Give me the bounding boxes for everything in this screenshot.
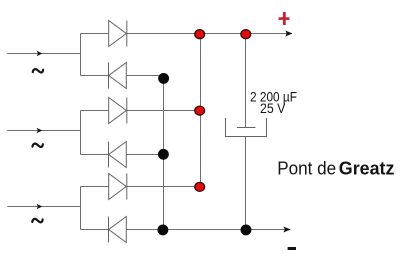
node D2 on negative bus (black) xyxy=(158,73,169,84)
wire positive bus vertical xyxy=(200,34,202,187)
wire phase 1 to diode D2 xyxy=(81,75,109,77)
wire capacitor branch upper xyxy=(245,34,247,127)
svg-text:Greatz: Greatz xyxy=(339,158,395,179)
arrow phase 1 input xyxy=(37,51,43,56)
wire D5 to positive bus xyxy=(127,186,201,188)
wire phase 1 input xyxy=(7,53,80,55)
svg-text:Pont de: Pont de xyxy=(277,158,336,179)
diode D1 phase 1 high side (arrow right) xyxy=(109,21,127,47)
wire phase 1 to diode D1 xyxy=(81,33,109,35)
wire positive top rail xyxy=(127,33,292,35)
wire phase 2 to diode D3 xyxy=(81,110,109,112)
arrow phase 3 input xyxy=(37,204,43,209)
diode D4 phase 2 low side (arrow left) xyxy=(109,142,127,168)
AC source symbol phase 1 xyxy=(33,69,43,72)
wire negative bus vertical xyxy=(163,76,165,230)
arrow negative output xyxy=(283,227,290,233)
AC source symbol phase 2 xyxy=(32,144,42,147)
wire phase 2 to diode D4 xyxy=(81,154,109,156)
node capacitor on bottom rail (black) xyxy=(241,224,252,235)
arrow phase 2 input xyxy=(37,128,43,133)
wire phase 2 input xyxy=(7,130,80,132)
node D1 output on top rail (red) xyxy=(195,30,205,39)
label minus terminal xyxy=(288,247,296,250)
diode D5 phase 3 high side (arrow right) xyxy=(109,174,127,200)
label plus terminal xyxy=(279,12,290,25)
diode D3 phase 2 high side (arrow right) xyxy=(109,98,127,124)
diode D2 phase 1 low side (arrow left) xyxy=(109,63,127,89)
capacitor C1 (polarized electrolytic) xyxy=(226,118,267,137)
wire phase 3 input xyxy=(7,206,80,208)
AC source symbol phase 3 xyxy=(32,219,42,222)
node capacitor on top rail (red) xyxy=(241,30,251,39)
wire phase 3 junction vertical xyxy=(80,187,82,230)
svg-text:25 V: 25 V xyxy=(260,101,285,116)
node negative bus on bottom rail (black) xyxy=(157,224,168,235)
wire D2 to negative bus xyxy=(127,75,164,77)
node D5 on positive bus (red) xyxy=(195,182,205,191)
wire phase 2 junction vertical xyxy=(80,111,82,155)
wire capacitor branch lower xyxy=(245,137,247,230)
node D3 on positive bus (red) xyxy=(195,106,205,115)
wire negative bottom rail xyxy=(127,229,291,231)
wire phase 3 to diode D5 xyxy=(81,186,109,188)
node D4 on negative bus (black) xyxy=(158,149,169,160)
arrow positive output xyxy=(285,31,292,37)
wire phase 1 junction vertical xyxy=(80,34,82,76)
diode D6 phase 3 low side (arrow left) xyxy=(109,217,127,243)
wire D4 to negative bus xyxy=(127,154,164,156)
wire D3 to positive bus xyxy=(127,110,201,112)
wire phase 3 to diode D6 xyxy=(81,229,109,231)
